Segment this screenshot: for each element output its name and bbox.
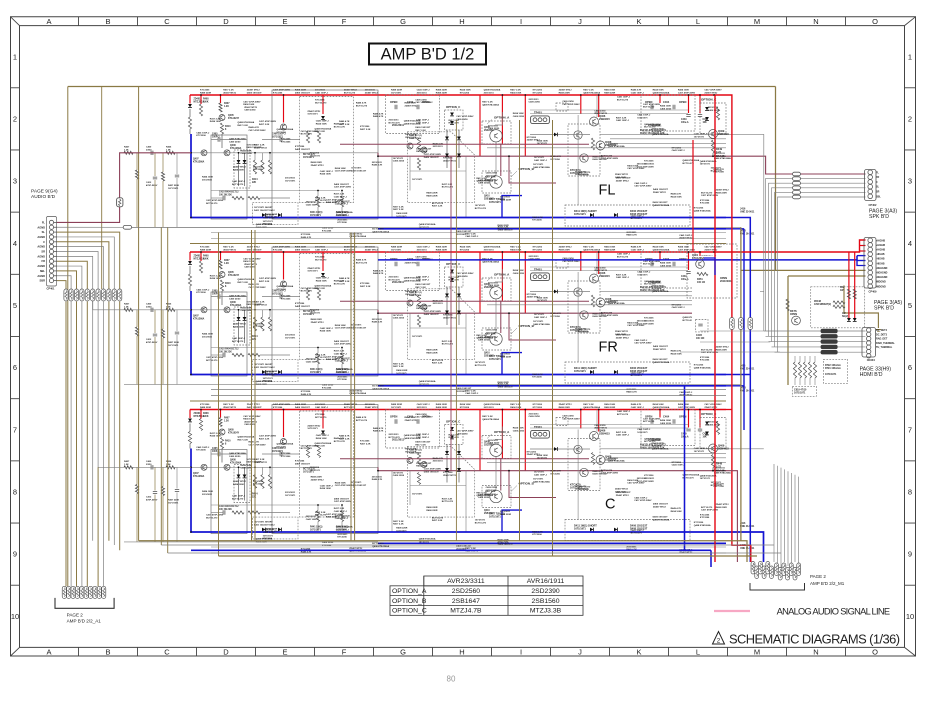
pin AGND xyxy=(49,235,53,239)
svg-text:2SD2560: 2SD2560 xyxy=(452,588,481,595)
svg-text:B: B xyxy=(105,648,110,657)
svg-text:HIGHGND: HIGHGND xyxy=(876,267,888,270)
wire red drop B xyxy=(854,252,856,318)
svg-text:G: G xyxy=(400,17,406,26)
svg-text:J: J xyxy=(578,17,582,26)
wire olive vertical xyxy=(138,87,140,541)
svg-text:1671/1971: 1671/1971 xyxy=(825,373,837,376)
svg-text:MTZJ3.3B: MTZJ3.3B xyxy=(530,608,562,615)
svg-text:AVR23/3311: AVR23/3311 xyxy=(447,578,485,585)
wire xyxy=(98,302,191,468)
svg-text:1.2K: 1.2K xyxy=(124,149,129,151)
resistor R428 xyxy=(135,327,138,336)
pin AGND xyxy=(49,225,53,229)
svg-text:4: 4 xyxy=(13,239,17,248)
resistor R427 xyxy=(124,308,133,311)
resistor RA1 xyxy=(847,289,850,299)
connector CN404 xyxy=(862,328,876,358)
svg-text:C412: C412 xyxy=(146,338,152,341)
resistor R426 xyxy=(166,151,175,154)
resistor xyxy=(107,289,111,301)
svg-text:23/50: 23/50 xyxy=(146,306,152,308)
wire xyxy=(162,310,164,329)
wire xyxy=(777,466,779,566)
wire xyxy=(154,467,156,490)
svg-text:E: E xyxy=(282,648,287,657)
svg-text:OPTION_A: OPTION_A xyxy=(392,588,427,595)
wire xyxy=(769,183,866,336)
wire blue C rail ext xyxy=(726,532,764,562)
svg-text:+HIGHB: +HIGHB xyxy=(876,239,885,242)
pin FR xyxy=(49,259,53,263)
svg-text:1671/1971: 1671/1971 xyxy=(168,345,179,347)
revision triangle xyxy=(713,632,725,645)
column ruler ticks and letters xyxy=(78,17,80,26)
svg-text:N: N xyxy=(813,648,818,657)
resistor R427 xyxy=(124,466,133,469)
resistor R428 xyxy=(135,170,138,179)
svg-text:8: 8 xyxy=(13,488,17,497)
svg-text:C: C xyxy=(605,497,615,513)
wire xyxy=(784,469,786,562)
pin xyxy=(775,563,779,576)
ferrite bead xyxy=(821,334,838,338)
wire xyxy=(136,467,138,484)
svg-text:OPTION_B: OPTION_B xyxy=(392,598,427,605)
pin xyxy=(755,566,759,579)
capacitor C412 xyxy=(153,492,157,494)
svg-text:C: C xyxy=(43,240,45,244)
mask over FR right side xyxy=(692,256,760,332)
wire gray bottom xyxy=(161,544,774,546)
svg-text:C: C xyxy=(164,648,170,657)
svg-text:AGND: AGND xyxy=(37,245,45,249)
pin AGND xyxy=(49,264,53,268)
wire blue loop CP409 xyxy=(857,255,866,257)
svg-text:SCHEMATIC DIAGRAMS (1/36): SCHEMATIC DIAGRAMS (1/36) xyxy=(729,632,900,647)
capacitor C413 xyxy=(175,490,179,492)
resistor xyxy=(91,289,95,301)
wire olive vertical xyxy=(350,233,352,541)
svg-text:10: 10 xyxy=(906,612,914,621)
connector CP402 xyxy=(865,170,877,201)
svg-text:F: F xyxy=(342,17,347,26)
svg-text:2SD2390: 2SD2390 xyxy=(531,588,560,595)
svg-text:PAGE 2: PAGE 2 xyxy=(67,612,84,617)
pin SBL xyxy=(49,269,53,273)
ferrite bead xyxy=(821,345,838,349)
wire xyxy=(176,153,178,174)
svg-text:H: H xyxy=(459,17,464,26)
pin SR xyxy=(49,249,53,253)
resistor R437 xyxy=(161,172,164,181)
svg-text:1#SF18BDAT(2): 1#SF18BDAT(2) xyxy=(814,303,831,306)
svg-text:RADI_THERMAL: RADI_THERMAL xyxy=(876,342,895,345)
bracket xyxy=(55,598,114,608)
resistor xyxy=(85,289,89,301)
wire xyxy=(57,271,77,289)
svg-text:MIDGND: MIDGND xyxy=(876,285,886,288)
connector CP401 xyxy=(47,217,57,287)
transistor DK7S xyxy=(792,316,801,325)
row ruler ticks and numbers xyxy=(11,87,20,89)
wire xyxy=(136,153,138,170)
svg-text:1.2K: 1.2K xyxy=(124,464,129,466)
svg-text:DC_DET4: DC_DET4 xyxy=(876,329,888,332)
svg-text:AGND: AGND xyxy=(37,225,45,229)
svg-text:R437 220K: R437 220K xyxy=(168,341,179,344)
wire olive vertical xyxy=(552,120,554,556)
resistor R401 box xyxy=(117,198,123,207)
resistor xyxy=(118,289,122,301)
wire xyxy=(57,232,120,289)
svg-text:FL: FL xyxy=(42,220,46,224)
svg-text:AGND: AGND xyxy=(37,235,45,239)
svg-text:C409: C409 xyxy=(146,460,152,463)
svg-text:C412: C412 xyxy=(146,181,152,184)
diode DA2 xyxy=(853,318,857,321)
wire xyxy=(57,276,71,289)
wire xyxy=(176,467,178,488)
svg-text:G: G xyxy=(400,648,406,657)
wire FR input feed xyxy=(57,256,191,309)
pin xyxy=(766,562,770,575)
svg-text:OPEN: OPEN xyxy=(790,313,797,316)
wire blue riser mid xyxy=(684,386,686,551)
wire red loop CP409 xyxy=(860,245,866,247)
wire olive hook xyxy=(844,285,878,328)
wire blue FR return ext xyxy=(726,385,744,387)
svg-text:5: 5 xyxy=(13,301,17,310)
svg-text:AGND: AGND xyxy=(37,274,45,278)
pin xyxy=(789,563,793,576)
resistor xyxy=(793,362,796,378)
dashed box Q451 xyxy=(687,244,737,298)
wire xyxy=(136,336,138,385)
svg-text:C409: C409 xyxy=(146,303,152,306)
capacitor C412 xyxy=(153,334,157,336)
svg-text:C409: C409 xyxy=(146,146,152,149)
svg-text:M: M xyxy=(754,17,760,26)
svg-text:SR: SR xyxy=(41,250,45,254)
resistor C448 xyxy=(833,305,845,308)
svg-text:R791 10Kohm: R791 10Kohm xyxy=(825,367,841,370)
pink legend line xyxy=(714,610,750,612)
svg-text:C: C xyxy=(164,17,170,26)
svg-text:CN404: CN404 xyxy=(867,358,876,362)
svg-text:K: K xyxy=(636,17,641,26)
pin xyxy=(778,568,782,581)
svg-text:-HIGHB: -HIGHB xyxy=(876,262,885,265)
wire maroon FL output xyxy=(726,156,866,174)
svg-text:A: A xyxy=(46,17,51,26)
wire xyxy=(108,302,110,541)
capacitor C409 xyxy=(151,308,153,312)
ferrite bead xyxy=(821,329,838,333)
svg-text:TH_THERMAL: TH_THERMAL xyxy=(876,346,893,349)
wire olive bus drop b xyxy=(101,87,103,290)
resistor xyxy=(803,362,806,378)
capacitor C413 xyxy=(175,175,179,177)
svg-text:2: 2 xyxy=(908,114,912,123)
svg-text:L: L xyxy=(696,17,700,26)
pin xyxy=(751,562,755,575)
svg-text:AVR16/1911: AVR16/1911 xyxy=(527,578,565,585)
svg-text:6: 6 xyxy=(908,363,912,372)
resistor ZD448 xyxy=(833,301,845,304)
olive bus C top xyxy=(190,400,726,402)
resistor xyxy=(112,289,116,301)
svg-text:CP401: CP401 xyxy=(47,287,55,291)
wire xyxy=(787,471,789,566)
pin xyxy=(758,562,762,575)
svg-text:23/50: 23/50 xyxy=(146,149,152,151)
ferrite bead xyxy=(821,339,838,343)
svg-text:2011/3011: 2011/3011 xyxy=(720,280,732,283)
svg-text:PAGE 2: PAGE 2 xyxy=(810,574,826,579)
wire red FL rail corner xyxy=(726,95,751,562)
svg-text:MTZJ4.7B: MTZJ4.7B xyxy=(450,608,482,615)
svg-text:2SB1560: 2SB1560 xyxy=(532,598,560,605)
pin xyxy=(97,586,101,598)
resistor xyxy=(69,289,73,301)
pin xyxy=(62,586,66,598)
svg-text:D: D xyxy=(223,17,229,26)
wire olive vertical xyxy=(254,230,256,541)
wire olive vertical mid xyxy=(455,120,457,541)
pin xyxy=(67,586,71,598)
wire xyxy=(798,477,800,566)
svg-text:4: 4 xyxy=(908,239,912,248)
svg-text:80: 80 xyxy=(447,675,456,684)
wire xyxy=(136,179,138,228)
svg-text:FL: FL xyxy=(599,182,616,198)
wire blue low xyxy=(191,549,711,551)
dashed box R792 xyxy=(823,359,847,383)
wire xyxy=(773,464,775,562)
svg-text:23/50: 23/50 xyxy=(146,464,152,466)
bracket xyxy=(750,583,805,590)
pin C xyxy=(49,240,53,244)
resistor xyxy=(64,289,68,301)
svg-text:8: 8 xyxy=(908,488,912,497)
svg-text:K: K xyxy=(636,648,641,657)
pin AGND xyxy=(49,245,53,249)
svg-text:HIGHGND: HIGHGND xyxy=(876,276,888,279)
title box AMP B'D 1/2 xyxy=(369,44,486,65)
svg-text:470P-50NV: 470P-50NV xyxy=(146,184,158,187)
capacitor C412 xyxy=(153,177,157,179)
wire xyxy=(772,346,866,348)
capacitor C409 xyxy=(151,465,153,469)
resistor xyxy=(101,289,105,301)
wire xyxy=(772,188,866,342)
resistor R428 xyxy=(135,485,138,494)
wire xyxy=(176,310,178,331)
wire maroon FL input xyxy=(57,153,191,223)
svg-text:1: 1 xyxy=(13,52,17,61)
svg-text:C412: C412 xyxy=(146,496,152,499)
svg-text:AMP B'D 1/2: AMP B'D 1/2 xyxy=(381,46,475,64)
svg-text:3: 3 xyxy=(13,177,17,186)
svg-text:SR: SR xyxy=(876,191,880,194)
wire blue mid riser xyxy=(743,229,745,430)
wire olive right drop xyxy=(775,87,777,271)
svg-text:MIDGND: MIDGND xyxy=(876,281,886,284)
pin AGND xyxy=(49,254,53,258)
svg-text:RAD_DET: RAD_DET xyxy=(876,338,888,341)
svg-text:AGND: AGND xyxy=(37,254,45,258)
connector CP409 xyxy=(864,238,876,289)
svg-text:6: 6 xyxy=(13,363,17,372)
svg-text:ANALOG AUDIO SIGNAL LINE: ANALOG AUDIO SIGNAL LINE xyxy=(777,607,891,617)
svg-text:9: 9 xyxy=(908,550,912,559)
wire olive vertical xyxy=(218,233,220,557)
dashed box C819 xyxy=(792,386,816,396)
svg-text:H: H xyxy=(459,648,464,657)
wire xyxy=(57,266,82,289)
svg-text:A: A xyxy=(46,648,51,657)
wire xyxy=(70,302,72,587)
svg-text:7: 7 xyxy=(908,425,912,434)
wire maroon C out to bundle xyxy=(726,471,737,562)
pin xyxy=(84,586,88,598)
wire xyxy=(136,494,138,543)
svg-text:1671/1971: 1671/1971 xyxy=(794,392,806,395)
wire olive CP409 b xyxy=(788,275,866,277)
svg-text:E: E xyxy=(282,17,287,26)
wire red C rail ext xyxy=(726,409,732,411)
wire gnd mid bundle xyxy=(211,389,726,391)
resistor xyxy=(786,299,789,311)
svg-text:FR: FR xyxy=(876,176,879,179)
pin xyxy=(797,563,801,576)
wire xyxy=(791,473,793,570)
pin SL xyxy=(49,230,53,234)
dashed box C41B xyxy=(696,320,708,332)
svg-text:R4x: R4x xyxy=(840,286,845,289)
wire xyxy=(119,302,121,551)
wire red right vertical xyxy=(714,95,716,562)
C channel amplifier block xyxy=(188,403,764,554)
wire red tie FR xyxy=(692,140,694,252)
svg-text:R426: R426 xyxy=(166,146,172,149)
svg-text:I: I xyxy=(520,17,522,26)
svg-text:SG(2): SG(2) xyxy=(842,316,848,318)
svg-text:2: 2 xyxy=(13,114,17,123)
wire xyxy=(766,179,866,331)
wire xyxy=(136,310,138,327)
resistor xyxy=(813,362,816,378)
svg-text:KTA1266A: KTA1266A xyxy=(692,257,705,260)
resistor xyxy=(80,289,84,301)
svg-text:SBR: SBR xyxy=(40,279,46,283)
svg-text:AUDIO B'D: AUDIO B'D xyxy=(31,194,56,200)
wire xyxy=(65,302,67,587)
wire olive vertical xyxy=(167,228,169,554)
dashed box R-sense xyxy=(811,287,865,328)
svg-text:2SB1647: 2SB1647 xyxy=(452,598,480,605)
wire olive vertical xyxy=(251,230,253,541)
ferrite bead L401 xyxy=(123,225,131,229)
svg-text:O: O xyxy=(872,17,878,26)
diode DA1 xyxy=(847,318,851,321)
wire olive vertical xyxy=(787,276,789,385)
svg-text:HIGHGND: HIGHGND xyxy=(876,272,888,275)
svg-text:470P-50NV: 470P-50NV xyxy=(146,498,158,501)
wire xyxy=(154,495,156,543)
resistor xyxy=(798,362,801,378)
wire blue FL rail ext xyxy=(726,218,750,563)
wire gray bottom2 xyxy=(168,552,781,554)
svg-text:R427: R427 xyxy=(124,460,130,463)
wire xyxy=(154,153,156,176)
pin xyxy=(762,566,766,579)
svg-text:AMP B'D 2/2_M1: AMP B'D 2/2_M1 xyxy=(810,581,845,586)
svg-text:R427: R427 xyxy=(124,303,130,306)
svg-text:B: B xyxy=(105,17,110,26)
wire xyxy=(766,335,866,337)
svg-text:R426: R426 xyxy=(166,460,172,463)
svg-text:1671/1971: 1671/1971 xyxy=(168,502,179,504)
wire xyxy=(57,242,109,289)
svg-text:FR: FR xyxy=(42,259,46,263)
svg-text:1.5K: 1.5K xyxy=(166,149,171,151)
svg-text:5: 5 xyxy=(908,301,912,310)
FR channel amplifier block xyxy=(188,246,764,397)
pin xyxy=(793,568,797,581)
wire xyxy=(154,180,156,228)
svg-text:1.5K: 1.5K xyxy=(166,306,171,308)
wire xyxy=(57,281,66,289)
svg-text:F: F xyxy=(342,648,347,657)
olive bus FR top xyxy=(190,243,726,245)
svg-text:R427: R427 xyxy=(124,146,130,149)
wire xyxy=(57,247,104,289)
wire gray drop xyxy=(763,134,765,331)
oval part C xyxy=(748,318,753,330)
svg-text:7: 7 xyxy=(13,425,17,434)
wire olive vertical xyxy=(354,233,356,541)
resistor R437 xyxy=(161,487,164,496)
wire xyxy=(764,330,866,332)
options table xyxy=(390,576,583,615)
wire gray bead line xyxy=(57,226,378,228)
svg-text:M: M xyxy=(754,648,760,657)
resistor R437 xyxy=(161,329,164,338)
svg-text:I: I xyxy=(520,648,522,657)
wire red FR rail extension xyxy=(726,240,866,252)
resistor RA2 xyxy=(853,289,856,299)
wire xyxy=(92,289,94,310)
pin xyxy=(770,566,774,579)
svg-text:1.5K: 1.5K xyxy=(166,464,171,466)
svg-text:3: 3 xyxy=(908,177,912,186)
svg-text:ZD448: ZD448 xyxy=(814,300,822,303)
wire xyxy=(162,153,164,172)
wire gnd lines xyxy=(700,330,764,332)
svg-text:470P-50NV: 470P-50NV xyxy=(146,341,158,344)
wire xyxy=(97,467,99,586)
wire olive bus drop left xyxy=(67,87,69,587)
wire xyxy=(113,302,115,546)
wire xyxy=(57,237,114,289)
wire maroon vertical mid xyxy=(450,156,452,471)
resistor R451 xyxy=(697,272,708,275)
svg-text:R426: R426 xyxy=(166,303,172,306)
wire xyxy=(769,341,866,343)
wire xyxy=(778,197,866,352)
